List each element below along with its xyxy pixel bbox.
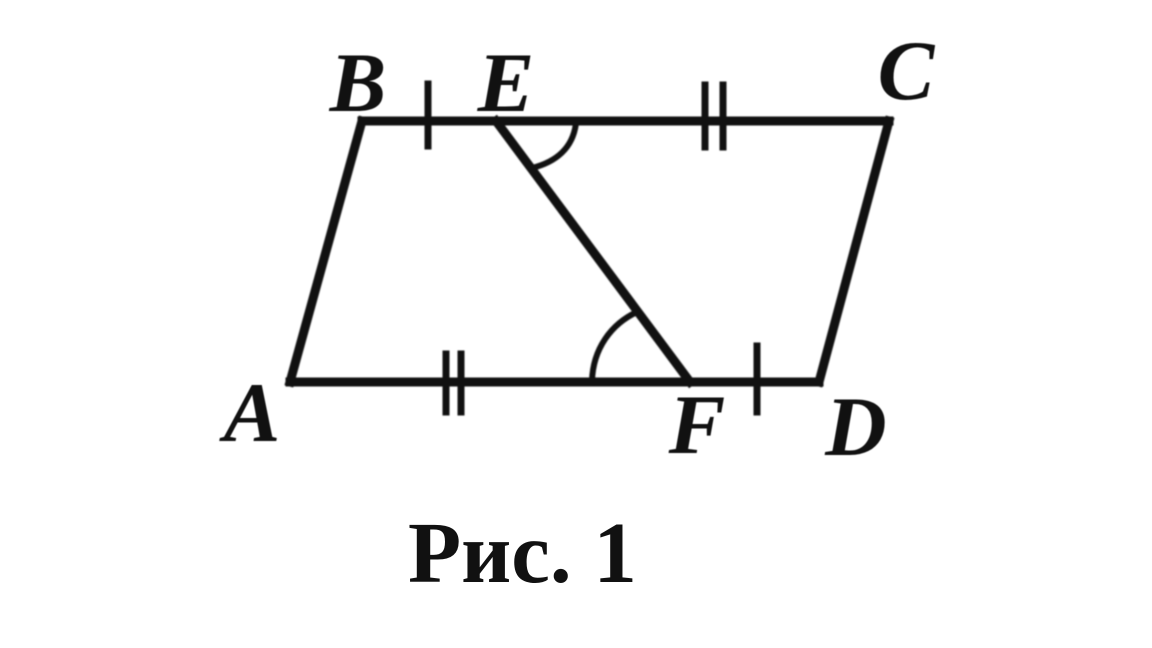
svg-text:B: B — [329, 36, 387, 130]
side AD (bottom) — [290, 378, 819, 387]
svg-text:D: D — [824, 380, 886, 474]
segment EF — [496, 121, 690, 382]
svg-text:A: A — [219, 366, 281, 460]
svg-text:Рис. 1: Рис. 1 — [408, 504, 637, 601]
side AB (left) — [290, 121, 362, 382]
double tick on AF — [443, 354, 450, 412]
svg-text:C: C — [878, 24, 936, 118]
angle arc at F — [592, 312, 637, 381]
angle arc at E — [532, 123, 576, 168]
side CD (right) — [819, 121, 889, 382]
svg-text:F: F — [668, 378, 726, 472]
tick on BE — [425, 84, 432, 146]
tick on FD — [754, 346, 761, 412]
double tick on EC — [702, 85, 709, 147]
side BC (top) — [362, 117, 889, 126]
svg-text:E: E — [477, 36, 535, 130]
